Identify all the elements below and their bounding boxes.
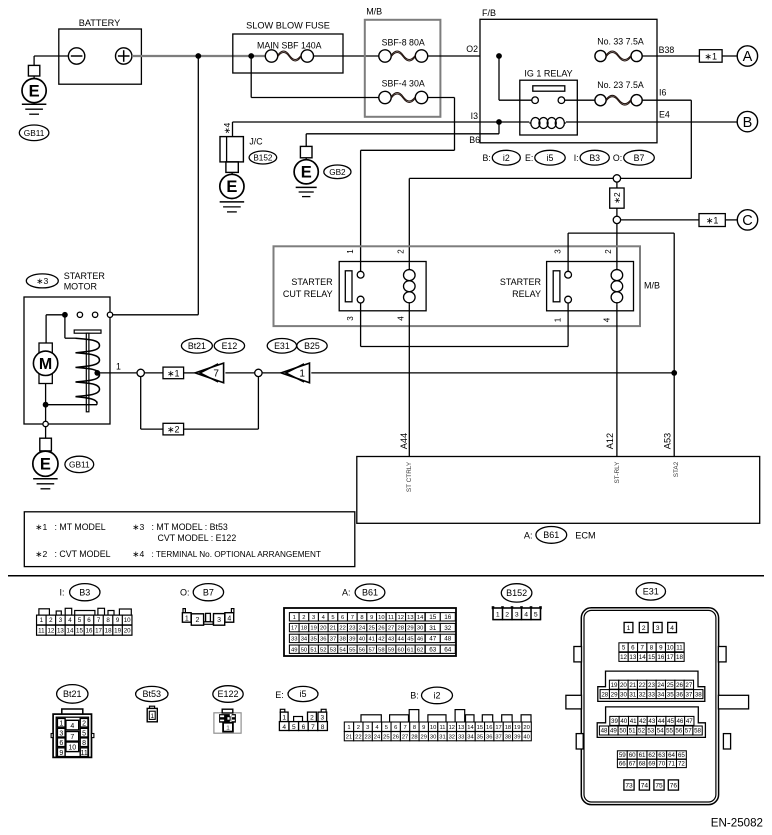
svg-text:2: 2 [82,720,86,727]
svg-text:28: 28 [397,626,403,632]
svg-text:51: 51 [629,728,636,735]
pin label A12 [605,433,615,449]
svg-text:43: 43 [648,718,655,725]
svg-text:E:: E: [525,153,533,163]
pin label 2 (cut relay) [397,249,406,254]
svg-text:20: 20 [320,626,326,632]
svg-text:29: 29 [421,734,427,740]
svg-text:28: 28 [411,734,417,740]
wire IG1 contact to fuse No.23 [565,99,595,101]
label E4 [659,110,670,120]
connector i5 pinout (8 pins) [279,709,327,731]
svg-text:21: 21 [330,626,336,632]
footnote box *1 (A) [699,50,722,63]
svg-text:47: 47 [429,636,437,643]
label A: B61 (pinout) [342,584,385,601]
svg-text:22: 22 [639,682,646,689]
svg-text:25: 25 [383,734,389,740]
svg-text:18: 18 [505,725,511,731]
pin label 4 (starter relay) [602,317,611,322]
legend box [24,512,355,567]
footnote box *1 (C) [699,214,725,227]
wire IG1 coil to connector B [566,121,737,123]
svg-text:3: 3 [312,615,315,621]
svg-text:8: 8 [106,617,110,624]
svg-text:11: 11 [388,615,394,621]
svg-text:B6: B6 [469,135,480,145]
E31 pins 73-76 [624,780,679,790]
svg-text:58: 58 [378,647,384,653]
wire junction circle to starter relay coil pin2 [616,224,618,268]
svg-text:60: 60 [629,752,636,759]
label GB11 (battery ground) [19,125,49,141]
svg-text:2: 2 [357,725,360,731]
svg-text:15: 15 [648,654,655,661]
svg-text:3: 3 [346,316,355,321]
svg-text:60: 60 [397,647,403,653]
junction circle right (E31/B25) [255,369,262,376]
wire feed into starter motor [113,56,199,315]
svg-text:41: 41 [630,718,637,725]
legend CVT MODEL E122 [158,533,237,543]
svg-text:49: 49 [291,647,297,653]
footnote box *2 (vertical) [610,182,624,208]
svg-text:10: 10 [68,745,76,752]
wire motor bottom [45,384,47,422]
pin label 1 (starter relay) [554,317,563,322]
starter cut relay bar [345,271,352,302]
svg-text:33: 33 [648,691,655,698]
svg-text:1: 1 [185,615,189,622]
footnote *4 (J/C) [222,122,232,134]
starter cut relay coil (pin2-4) [404,263,416,311]
ground hatch (starter) [33,479,58,489]
fuse No.33 [595,50,642,61]
svg-text:E: E [226,178,237,196]
svg-text:SBF-4 30A: SBF-4 30A [382,78,425,88]
svg-text:34: 34 [467,734,474,740]
pin function STA2 [673,461,680,477]
junction connector J/C box [220,137,243,162]
svg-text:30: 30 [430,734,436,740]
svg-text:35: 35 [477,734,483,740]
svg-text:E122: E122 [217,689,238,699]
IG 1 relay contact bar [533,86,565,91]
svg-text:1: 1 [554,317,563,322]
connector B152 pinout (5 pins) [492,606,542,619]
svg-text:4: 4 [227,615,231,622]
svg-text:11: 11 [676,645,683,652]
label B152 (J/C) [249,151,277,164]
wire terminal 1 out of motor box [97,372,137,374]
svg-text:Bt21: Bt21 [63,689,82,699]
svg-text:31: 31 [439,734,445,740]
wire circle to arrow 1 [262,372,281,374]
svg-text:GB11: GB11 [69,459,90,469]
svg-text:46: 46 [676,718,683,725]
svg-text:∗1: ∗1 [35,522,47,532]
starter motor solenoid contact (box edge) [107,312,112,317]
svg-text:28: 28 [601,691,608,698]
pin label A53 [662,433,672,449]
svg-text:36: 36 [676,691,683,698]
svg-text:64: 64 [668,752,675,759]
junction circle below *2 [613,208,620,223]
label Bt21 (pinout) [57,685,88,704]
svg-text:35: 35 [310,636,316,642]
wire junction circle to *1 (C) [621,219,699,221]
M/B fuse box (gray) [365,6,441,117]
svg-text:i2: i2 [433,691,440,701]
svg-text:∗2: ∗2 [612,192,622,204]
svg-text:B7: B7 [634,153,645,163]
pin label 3 (cut relay) [346,316,355,321]
svg-text:20: 20 [620,682,627,689]
pin label 2 (starter relay) [604,249,613,254]
svg-text:GB11: GB11 [24,128,45,138]
ECM box [357,457,760,524]
junction dot A53 node [671,370,677,376]
svg-text:6: 6 [59,740,63,747]
svg-text:∗1: ∗1 [167,369,180,379]
E31 pins 5-18 [619,643,684,662]
svg-text:62: 62 [417,647,423,653]
svg-text:75: 75 [655,783,663,790]
svg-text:6: 6 [394,725,397,731]
svg-text:B: B [743,115,753,131]
svg-text:32: 32 [449,734,455,740]
svg-text:56: 56 [675,728,682,735]
label J/C [249,136,263,146]
svg-text:1: 1 [346,249,355,254]
label A: B61 ECM [524,527,596,544]
svg-text:2: 2 [505,612,509,619]
wire I3 junction connector to IG1 coil [233,121,500,123]
junction circle I6 tap [613,175,620,182]
legend *1 MT MODEL [35,522,105,532]
label E12 [214,339,244,354]
pin function ST-RLY [614,461,621,484]
svg-text:1: 1 [299,368,305,379]
svg-text:E4: E4 [659,110,670,120]
svg-text:24: 24 [657,682,664,689]
svg-text:26: 26 [378,626,384,632]
label *3 (starter motor) [26,274,58,288]
pin label 4 (cut relay) [397,316,406,321]
svg-text:57: 57 [368,647,374,653]
svg-text:9: 9 [116,617,120,624]
svg-text:76: 76 [670,783,678,790]
svg-text:20: 20 [523,725,529,731]
wire starter relay pin3 up-over to A53 node [568,233,674,373]
svg-text:8: 8 [650,645,654,652]
svg-text:39: 39 [611,718,618,725]
svg-text:IG 1 RELAY: IG 1 RELAY [524,69,572,79]
svg-text:40: 40 [523,734,529,740]
svg-text:70: 70 [658,761,665,768]
E31 pins 19-38 [598,671,705,701]
svg-text:8: 8 [413,725,416,731]
svg-text:21: 21 [346,734,352,740]
svg-text:11: 11 [38,627,45,634]
svg-text:20: 20 [124,627,131,634]
svg-text:13: 13 [407,615,413,621]
connector Bt21 pinout (11 pins) [51,709,94,757]
svg-text:I:: I: [59,588,64,598]
svg-text:12: 12 [47,627,54,634]
svg-text:17: 17 [667,654,674,661]
svg-text:43: 43 [388,636,394,642]
svg-text:12: 12 [449,725,455,731]
svg-text:33: 33 [291,636,297,642]
connector E31 side tabs [566,647,749,750]
wire circle to *1 box [144,372,163,374]
connector circle B [737,111,757,131]
svg-text:56: 56 [359,647,365,653]
svg-text:1: 1 [282,715,286,722]
IG 1 relay box [520,69,578,135]
J/C lower connector [226,162,238,175]
svg-text:44: 44 [397,636,404,642]
solenoid winding (spring) [76,338,100,403]
legend *3 MT MODEL Bt53 [132,522,228,532]
connector E31 body [581,608,718,805]
svg-text:63: 63 [429,647,437,654]
E31 pins 39-58 [597,707,705,738]
svg-text:46: 46 [417,636,423,642]
svg-text:14: 14 [67,627,74,634]
svg-text:59: 59 [619,752,626,759]
junction circle left (Bt21/E12) [137,369,144,376]
svg-text:1: 1 [293,615,296,621]
wire I6 to relay row [409,100,691,263]
svg-text:7: 7 [403,725,406,731]
svg-text:∗4: ∗4 [132,549,144,559]
svg-text:36: 36 [486,734,492,740]
svg-text:71: 71 [668,761,675,768]
svg-text:1: 1 [116,361,121,371]
svg-text:B152: B152 [253,153,273,162]
svg-text:A53: A53 [662,433,672,449]
svg-text:65: 65 [678,752,685,759]
svg-text:15: 15 [429,614,437,621]
svg-text:17: 17 [95,627,102,634]
svg-text:O:: O: [180,588,190,598]
svg-text:55: 55 [666,728,673,735]
svg-text:73: 73 [625,783,633,790]
svg-text:63: 63 [658,752,665,759]
svg-text:45: 45 [407,636,413,642]
svg-text:26: 26 [676,682,683,689]
svg-text:E31: E31 [643,587,659,597]
svg-text:31: 31 [629,691,636,698]
svg-text:∗2: ∗2 [35,549,47,559]
wire *1 to connector C [725,219,737,221]
svg-text:: MT MODEL: : MT MODEL [55,522,106,532]
label No. 33 7.5A [597,37,644,47]
svg-text:9: 9 [370,615,373,621]
svg-text:11: 11 [80,750,87,757]
svg-text:39: 39 [349,636,355,642]
svg-text:No. 23 7.5A: No. 23 7.5A [597,80,644,90]
svg-text:15: 15 [76,627,83,634]
svg-text:48: 48 [444,636,452,643]
svg-text:32: 32 [444,625,452,632]
label SBF-4 30A [382,78,425,88]
wire starter relay coil pin4 to ECM A12 [616,311,618,457]
svg-text:2: 2 [310,715,314,722]
svg-text:4: 4 [397,316,406,321]
svg-text:5: 5 [622,645,626,652]
svg-text:10: 10 [430,725,436,731]
svg-text:4: 4 [282,724,286,731]
svg-text:41: 41 [368,636,374,642]
svg-text:10: 10 [378,615,384,621]
pin label 3 (starter relay) [554,249,563,254]
svg-text:30: 30 [417,626,423,632]
svg-text:39: 39 [514,734,520,740]
svg-text:7: 7 [351,615,354,621]
svg-text:29: 29 [407,626,413,632]
svg-text:13: 13 [57,627,64,634]
junction dot O2 branch [496,53,502,59]
svg-text:9: 9 [422,725,425,731]
svg-text:37: 37 [685,691,692,698]
svg-text:9: 9 [59,750,63,757]
battery negative terminal [68,48,84,64]
ground hatch (GB2) [296,187,317,196]
starter relay contact top (pin3) [565,271,572,278]
svg-text:18: 18 [301,626,307,632]
svg-text:51: 51 [310,647,316,653]
label E31 (pinout) [636,583,665,600]
connector E122 pinout [214,709,241,733]
svg-text:M/B: M/B [644,281,660,291]
svg-text:44: 44 [658,718,665,725]
svg-text:5: 5 [82,730,86,737]
slow blow fuse box [233,20,343,73]
wire coil lead-in [499,121,529,123]
pin label A44 [399,433,409,449]
motor circle M [33,351,57,375]
wire SBF-8 to F/B O2 [428,55,480,57]
svg-text:25: 25 [667,682,674,689]
pin function ST CTRLY [406,461,413,492]
svg-text:8: 8 [321,724,325,731]
svg-text:54: 54 [657,728,664,735]
svg-text:21: 21 [629,682,636,689]
footnote box *2 (CVT) [163,423,184,435]
svg-text:6: 6 [302,724,306,731]
footnote box *1 (MT) [163,367,184,379]
svg-text:27: 27 [388,626,394,632]
svg-text:13: 13 [629,654,636,661]
figure number EN-25082 [711,817,763,830]
wire arrow 1 to A53 node [311,372,674,374]
fuse SBF-8 [379,50,428,62]
connector i2 pinout (40 pins) [344,710,531,741]
svg-text:6: 6 [87,617,91,624]
starter relay bar [553,271,560,302]
svg-text:3: 3 [59,617,63,624]
label STARTER MOTOR [64,271,106,292]
svg-text:69: 69 [648,761,655,768]
connector B7 pinout (4 pins) [182,609,234,626]
svg-text:O:: O: [613,153,622,163]
svg-text:∗1: ∗1 [704,51,717,61]
svg-text:11: 11 [439,725,445,731]
svg-text:C: C [742,213,752,229]
svg-text:5: 5 [534,612,538,619]
svg-text:6: 6 [341,615,344,621]
svg-text:B61: B61 [362,588,378,598]
svg-text:16: 16 [86,627,93,634]
svg-text:A12: A12 [605,433,615,449]
svg-text:26: 26 [393,734,399,740]
svg-text:i5: i5 [299,689,306,699]
svg-text:1: 1 [40,617,44,624]
svg-text:22: 22 [355,734,361,740]
motor rectangle [39,343,52,384]
svg-text:31: 31 [429,625,437,632]
svg-text:14: 14 [417,615,424,621]
svg-text:64: 64 [444,647,452,654]
svg-text:3: 3 [656,625,660,632]
svg-text:17: 17 [291,626,297,632]
svg-text:3: 3 [366,725,369,731]
starter cut relay contact top (pin1) [357,271,364,278]
legend *2 CVT MODEL [35,549,110,559]
IG 1 relay coil [529,118,566,129]
svg-text:E: E [301,164,312,182]
label E31 (arrow) [267,339,296,354]
label B152 (pinout) [501,584,532,602]
starter cut relay contact box [339,262,426,311]
svg-text:3: 3 [59,730,63,737]
svg-text:34: 34 [657,691,664,698]
label E: i5 [275,686,318,701]
label O2 [466,44,478,54]
svg-text:58: 58 [694,728,701,735]
svg-text:4: 4 [602,317,611,322]
svg-text:74: 74 [641,783,649,790]
svg-text:Bt53: Bt53 [143,689,162,699]
svg-text:SLOW BLOW FUSE: SLOW BLOW FUSE [246,20,330,30]
svg-text:25: 25 [368,626,374,632]
svg-text:19: 19 [611,682,618,689]
solenoid plunger T-bar [74,330,101,333]
svg-text:∗3: ∗3 [132,522,144,532]
IG 1 relay contact left [532,97,539,104]
svg-text:12: 12 [620,654,627,661]
ground connector circle (motor box bottom) [43,421,48,426]
svg-text:50: 50 [301,647,307,653]
svg-text:∗4: ∗4 [222,122,232,134]
svg-text:5: 5 [385,725,388,731]
svg-text:14: 14 [467,725,474,731]
svg-text:E31: E31 [274,341,290,351]
connector circle C [737,210,757,230]
ground connector (GB2) [300,146,312,160]
svg-text:4: 4 [524,612,528,619]
svg-text:A44: A44 [399,433,409,449]
svg-text:23: 23 [648,682,655,689]
starter cut relay contact bottom (pin3) [357,296,364,303]
label No. 23 7.5A [597,80,644,90]
svg-text:10: 10 [667,645,674,652]
svg-text:Bt21: Bt21 [188,341,206,351]
svg-text:14: 14 [639,654,646,661]
